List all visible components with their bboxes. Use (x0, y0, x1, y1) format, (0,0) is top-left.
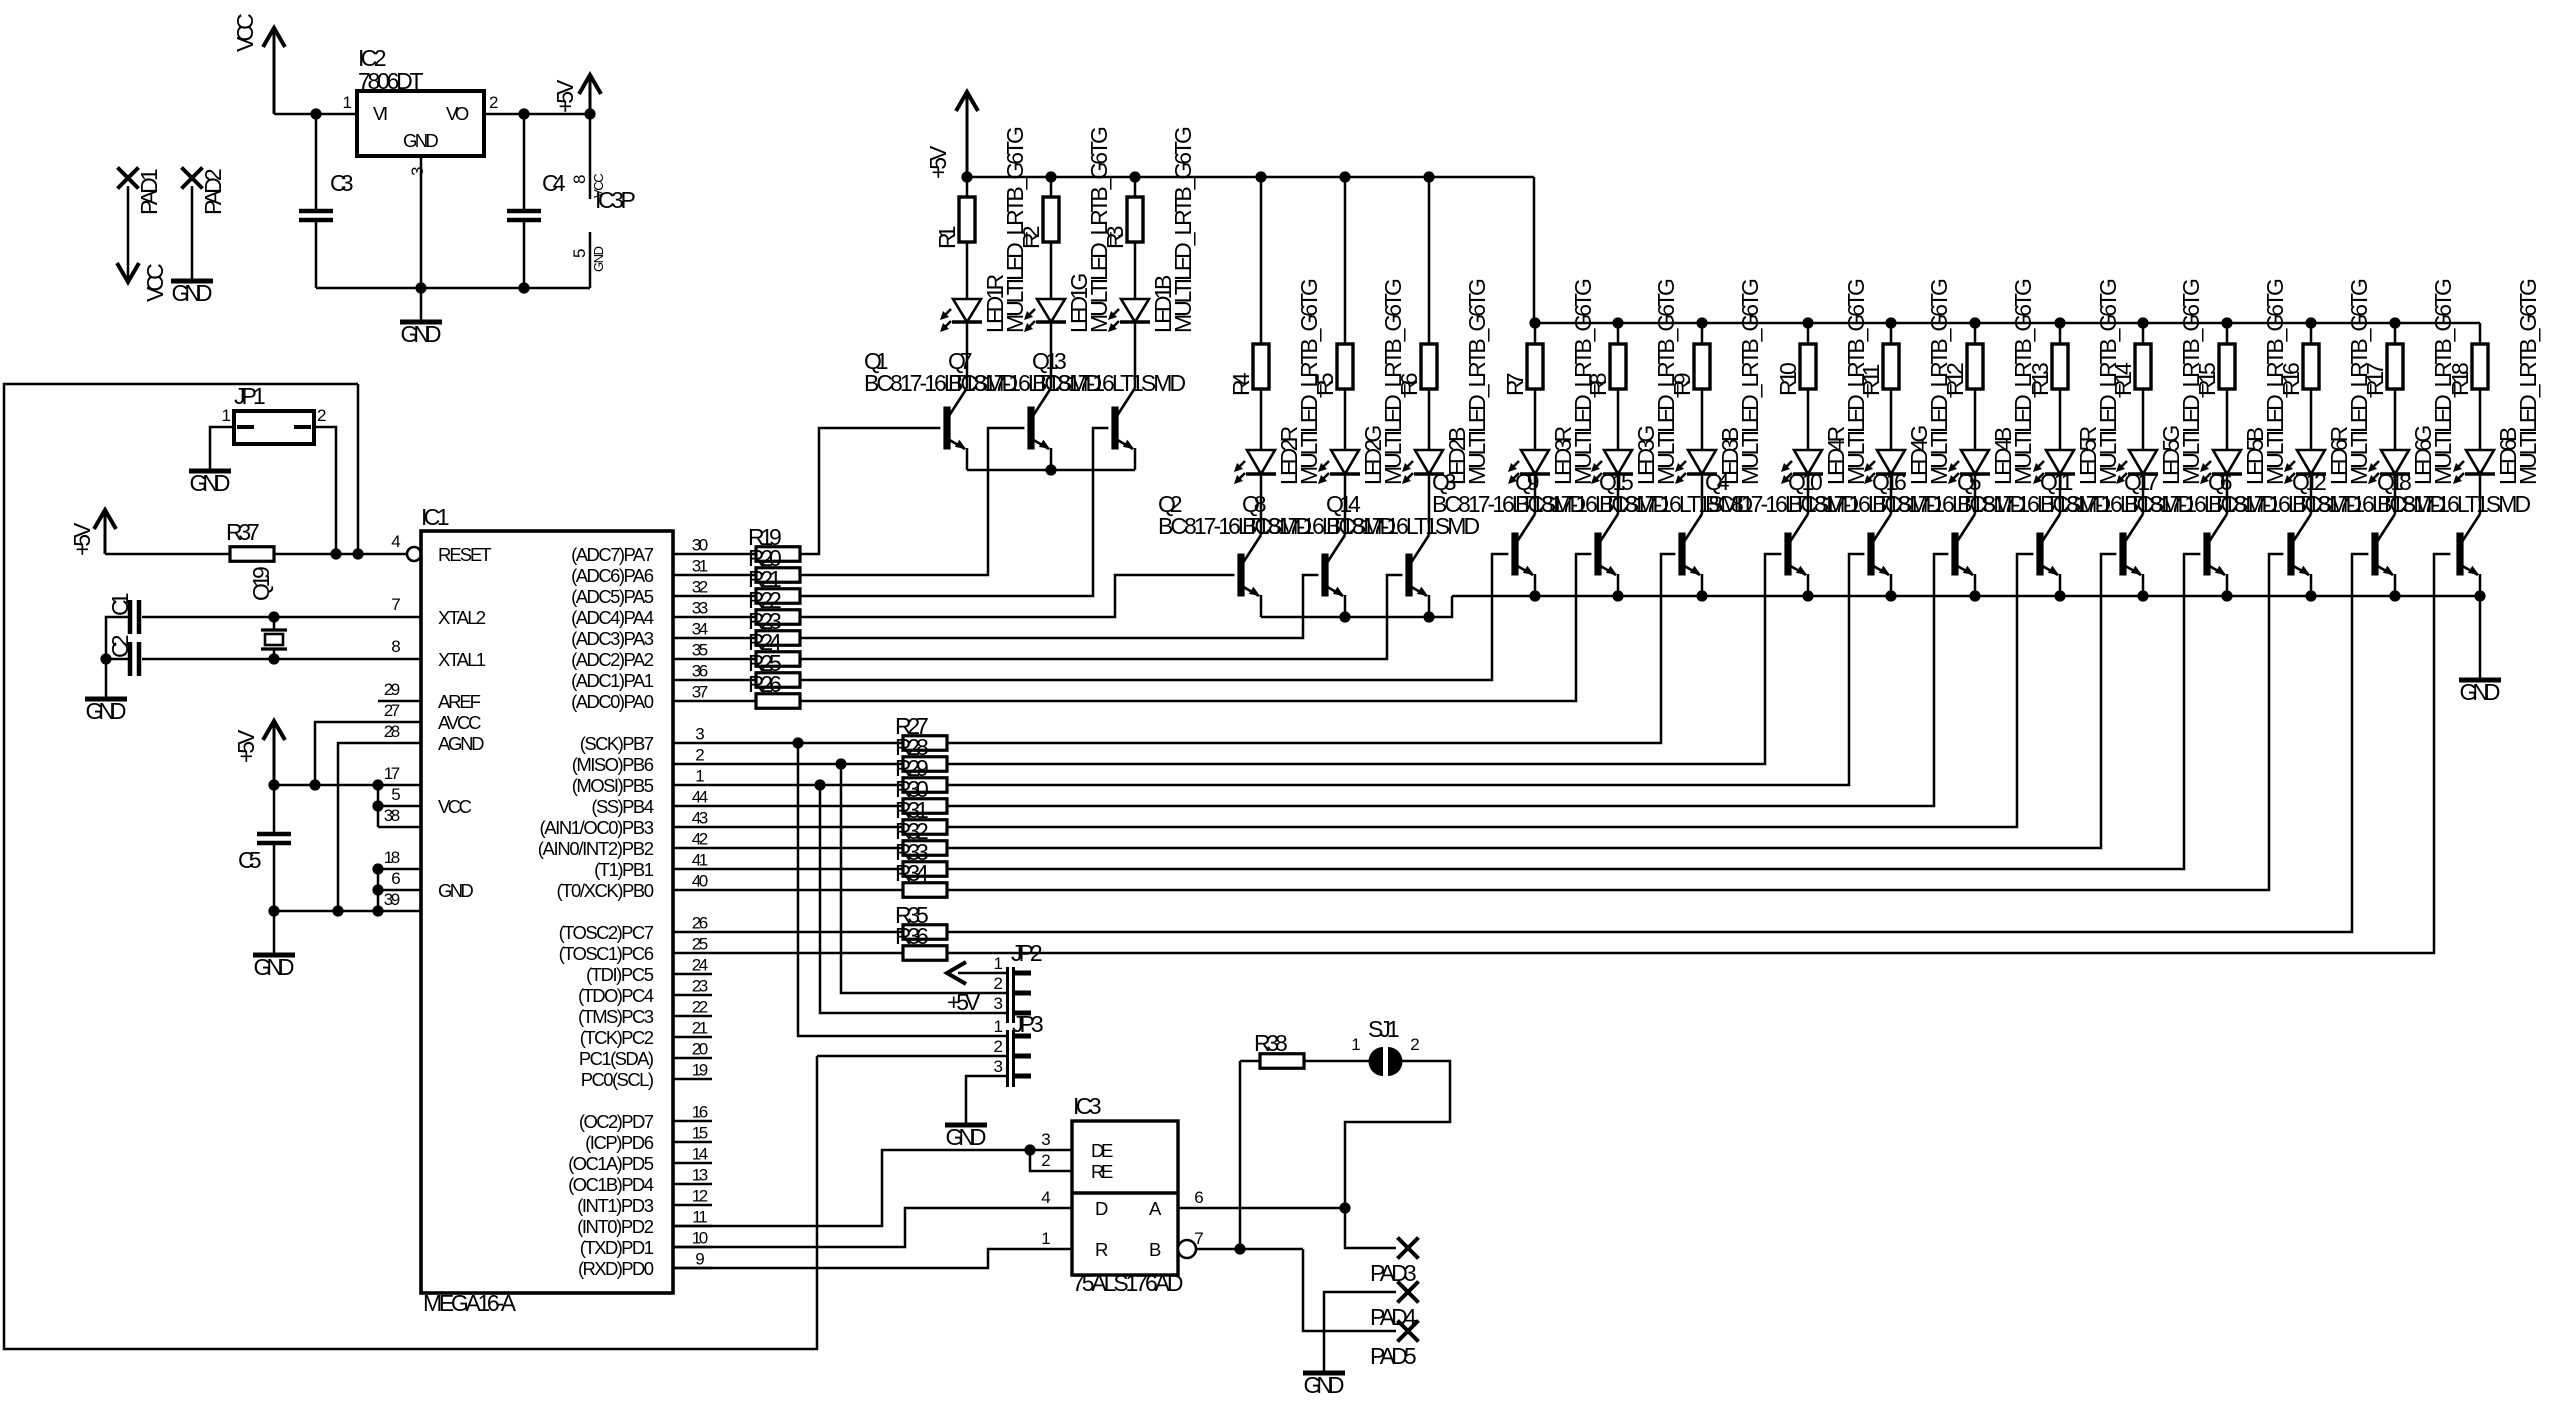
wire rail to R1 (966, 177, 969, 197)
svg-text:DE: DE (1091, 1140, 1113, 1161)
resistor R30 (712, 805, 903, 808)
svg-text:6: 6 (391, 869, 400, 888)
svg-text:BC817-16LT1SMD: BC817-16LT1SMD (2377, 491, 2531, 517)
svg-text:(T1)PB1: (T1)PB1 (594, 859, 654, 880)
LED LED2G (1331, 450, 1359, 474)
svg-text:(OC1A)PD5: (OC1A)PD5 (568, 1153, 654, 1174)
LED LED2R (1247, 450, 1275, 474)
ground GND (emitters) (2459, 678, 2501, 683)
wire R15 to LED5B (2226, 389, 2229, 450)
svg-text:R34: R34 (895, 860, 929, 886)
wire LED2R to Q2 collector (1260, 474, 1263, 535)
svg-text:1: 1 (994, 954, 1003, 973)
svg-text:(AIN0/INT2)PB2: (AIN0/INT2)PB2 (538, 838, 654, 859)
svg-text:R: R (1095, 1239, 1108, 1260)
wire pin18 stub (378, 868, 421, 871)
svg-text:C5: C5 (238, 847, 262, 873)
wire R18 to LED6B (2479, 389, 2482, 450)
wire +5V rail upper (967, 176, 1534, 179)
svg-text:C1: C1 (107, 593, 133, 617)
LED LED6R (2297, 450, 2325, 474)
resistor R17 (2387, 344, 2403, 389)
svg-text:27: 27 (384, 701, 400, 720)
wire frame loop (4, 384, 817, 1349)
crystal Q19 (268, 611, 279, 622)
LED LED5B (2213, 450, 2241, 474)
wire rail to R10 (1807, 323, 1810, 344)
wire C4 down (523, 220, 526, 288)
junction (2389, 590, 2400, 601)
junction (1339, 1202, 1350, 1213)
wire base route (947, 554, 2283, 890)
svg-text:28: 28 (384, 722, 400, 741)
wire C2 left (106, 658, 130, 661)
resistor R25 (712, 679, 756, 682)
wire base route (800, 575, 1318, 638)
svg-text:R38: R38 (1254, 1030, 1288, 1056)
svg-text:1: 1 (1041, 1229, 1050, 1248)
svg-text:R10: R10 (1775, 362, 1801, 396)
svg-text:(INT0)PD2: (INT0)PD2 (577, 1216, 654, 1237)
LED LED4R (1794, 450, 1822, 474)
svg-text:R17: R17 (2362, 362, 2388, 396)
svg-text:R5: R5 (1312, 373, 1338, 397)
wire base route (800, 575, 1234, 617)
wire LED4R to Q4 collector (1807, 474, 1810, 514)
wire gnd bus (377, 869, 380, 911)
resistor R22 (712, 616, 756, 619)
supply +5V (VCC) (263, 721, 285, 740)
junction (1802, 317, 1813, 328)
svg-text:3: 3 (408, 167, 427, 176)
capacitor C4 (507, 209, 541, 214)
wire rail to R4 (1260, 177, 1263, 344)
wire rail to R16 (2310, 323, 2313, 344)
resistor R12 (1967, 344, 1983, 389)
wire SJ1 to A node (1345, 1061, 1450, 1248)
resistor R7 (1527, 344, 1543, 389)
wire LED6B to Q18 collector (2479, 474, 2482, 514)
svg-text:AVCC: AVCC (438, 712, 482, 733)
svg-text:R16: R16 (2278, 362, 2304, 396)
resistor R26 (712, 700, 756, 703)
svg-text:44: 44 (692, 788, 708, 807)
svg-text:GND: GND (190, 470, 231, 496)
pin 3 wire (420, 156, 423, 288)
svg-text:GND: GND (403, 130, 439, 151)
resistor R28 (712, 763, 903, 766)
wire rail to R7 (1534, 323, 1537, 344)
wire R17 to LED6G (2394, 389, 2397, 450)
svg-text:R6: R6 (1396, 373, 1422, 397)
svg-text:3: 3 (695, 725, 704, 744)
svg-text:R9: R9 (1669, 373, 1695, 397)
svg-text:43: 43 (692, 809, 708, 828)
junction (2054, 317, 2065, 328)
svg-text:11: 11 (692, 1208, 707, 1227)
svg-text:5: 5 (570, 249, 589, 258)
svg-text:14: 14 (692, 1145, 708, 1164)
node dot pin3-gnd (415, 282, 426, 293)
wire rail to R18 (2479, 323, 2482, 344)
resistor R29 (712, 784, 903, 787)
junction (1612, 317, 1623, 328)
wire AREF stub (378, 700, 421, 703)
wire B to PAD5 (1303, 1249, 1396, 1331)
junction (2137, 590, 2148, 601)
wire base route (947, 554, 1675, 743)
svg-text:30: 30 (692, 536, 708, 555)
wire +5V to JP2 pin1 (958, 972, 1007, 975)
wire LED4B to Q16 collector (1974, 474, 1977, 514)
svg-text:AREF: AREF (438, 691, 481, 712)
junction (1969, 590, 1980, 601)
svg-text:R37: R37 (226, 519, 260, 545)
wire base route (800, 428, 1024, 575)
svg-text:R11: R11 (1858, 364, 1884, 396)
wire LED1B to Q13 collector (1134, 322, 1137, 388)
svg-text:PAD2: PAD2 (200, 168, 226, 215)
ground GND (JP1) (189, 469, 231, 474)
resistor R15 (2219, 344, 2235, 389)
resistor R33 (712, 868, 903, 871)
svg-text:2: 2 (695, 746, 704, 765)
svg-text:PC0(SCL): PC0(SCL) (581, 1069, 654, 1090)
wire B out (1196, 1248, 1303, 1251)
wire R4 to LED2R (1260, 389, 1263, 450)
svg-text:+5V: +5V (69, 522, 95, 556)
junction (1885, 590, 1896, 601)
resistor R27 (712, 742, 903, 745)
transistor Q6 BC817-16LT1SMD (2287, 533, 2294, 576)
wire rail to R3 (1134, 177, 1137, 197)
wire R38 down (1239, 1061, 1242, 1249)
svg-text:R36: R36 (895, 923, 929, 949)
wire +5V row to VCC pin (274, 784, 421, 787)
IC IC3 75ALS176AD (1072, 1121, 1178, 1275)
wire LED1R to Q1 collector (966, 322, 969, 388)
wire R6 to LED2B (1428, 389, 1431, 450)
svg-text:7806DT: 7806DT (358, 68, 424, 94)
wire PD2 to DE/RE (673, 1150, 1072, 1226)
svg-text:75ALS176AD: 75ALS176AD (1072, 1270, 1184, 1296)
transistor Q9 BC817-16LT1SMD (1594, 533, 1601, 576)
svg-text:5: 5 (391, 785, 400, 804)
svg-text:24: 24 (692, 956, 708, 975)
ground GND (PAD2) (171, 279, 213, 284)
wire PD1 to D (673, 1208, 1072, 1247)
svg-text:(ADC3)PA3: (ADC3)PA3 (571, 628, 654, 649)
node dot PB5 tap (814, 779, 825, 790)
junction (1045, 464, 1056, 475)
svg-text:34: 34 (692, 620, 708, 639)
svg-text:(ADC1)PA1: (ADC1)PA1 (571, 670, 654, 691)
ground GND (C5) (253, 953, 295, 958)
junction (1969, 317, 1980, 328)
svg-text:B: B (1149, 1239, 1161, 1260)
svg-text:(TOSC1)PC6: (TOSC1)PC6 (559, 943, 654, 964)
junction (1129, 171, 1140, 182)
svg-text:IC1: IC1 (421, 504, 450, 530)
junction (1024, 1144, 1035, 1155)
wire LED3R to Q3 collector (1534, 474, 1537, 514)
svg-text:AGND: AGND (438, 733, 485, 754)
svg-text:2: 2 (317, 406, 326, 425)
junction (2305, 590, 2316, 601)
svg-text:41: 41 (692, 851, 708, 870)
wire R11 to LED4G (1890, 389, 1893, 450)
LED LED1B (1121, 299, 1149, 322)
junction (1696, 590, 1707, 601)
svg-text:2: 2 (1410, 1035, 1419, 1054)
svg-text:GND: GND (401, 321, 442, 347)
svg-text:18: 18 (384, 848, 400, 867)
svg-text:6: 6 (1194, 1188, 1203, 1207)
svg-text:R13: R13 (2027, 362, 2053, 396)
transistor Q3 BC817-16LT1SMD (1511, 533, 1518, 576)
wire PB6 to JP2 pin2 (841, 764, 1007, 993)
capacitor C2 (128, 642, 133, 676)
svg-text:XTAL2: XTAL2 (438, 607, 486, 628)
svg-text:C4: C4 (542, 170, 566, 196)
wire base route (947, 554, 1864, 785)
svg-text:PAD3: PAD3 (1370, 1260, 1417, 1286)
svg-text:(SCK)PB7: (SCK)PB7 (580, 733, 654, 754)
svg-text:1: 1 (222, 406, 231, 425)
wire rail to R17 (2394, 323, 2397, 344)
wire rail to R2 (1050, 177, 1053, 197)
wire LED4G to Q10 collector (1890, 474, 1893, 514)
wire base route (800, 554, 1508, 680)
transistor Q10 BC817-16LT1SMD (1867, 533, 1874, 576)
svg-text:(ICP)PD6: (ICP)PD6 (585, 1132, 654, 1153)
node dot frame-reset (352, 548, 363, 559)
svg-text:+5V: +5V (925, 145, 951, 179)
resistor R6 (1421, 344, 1437, 389)
svg-text:(T0/XCK)PB0: (T0/XCK)PB0 (557, 880, 655, 901)
svg-text:R2: R2 (1018, 226, 1044, 250)
junction (2221, 317, 2232, 328)
pin 7 inverted bubble (1178, 1240, 1196, 1258)
transistor Q8 BC817-16LT1SMD (1321, 554, 1328, 597)
wire emitter rail main (1452, 595, 2480, 598)
svg-text:(SS)PB4: (SS)PB4 (591, 796, 654, 817)
svg-text:1: 1 (994, 1017, 1003, 1036)
wire PAD4 to gnd (1324, 1292, 1396, 1371)
LED LED3G (1604, 450, 1632, 474)
svg-text:(MISO)PB6: (MISO)PB6 (572, 754, 654, 775)
wire base route (947, 554, 2116, 848)
wire LED2G to Q8 collector (1344, 474, 1347, 535)
IC IC1 MEGA16-A (421, 531, 673, 1293)
svg-text:2: 2 (994, 1037, 1003, 1056)
svg-text:13: 13 (692, 1166, 708, 1185)
svg-text:(TOSC2)PC7: (TOSC2)PC7 (559, 922, 654, 943)
wire RE jog (1030, 1150, 1072, 1171)
wire R13 to LED5R (2059, 389, 2062, 450)
resistor R14 (2135, 344, 2151, 389)
junction (1696, 317, 1707, 328)
transistor Q2 BC817-16LT1SMD (1237, 554, 1244, 597)
RESET inverted pin circle (407, 547, 421, 561)
LED LED6B (2466, 450, 2494, 474)
transistor Q16 BC817-16LT1SMD (1951, 533, 1958, 576)
svg-text:GND: GND (2460, 679, 2501, 705)
svg-text:RE: RE (1091, 1161, 1113, 1182)
svg-text:(ADC2)PA2: (ADC2)PA2 (571, 649, 654, 670)
wire to ground (420, 288, 423, 320)
svg-text:(TCK)PC2: (TCK)PC2 (580, 1027, 654, 1048)
wire LED5B to Q17 collector (2226, 474, 2229, 514)
svg-text:38: 38 (384, 806, 400, 825)
svg-text:3: 3 (1041, 1130, 1050, 1149)
junction (1045, 171, 1056, 182)
svg-text:R8: R8 (1585, 373, 1611, 397)
wire LED1G to Q7 collector (1050, 322, 1053, 388)
svg-text:JP3: JP3 (1012, 1011, 1044, 1037)
LED LED6G (2381, 450, 2409, 474)
junction (2389, 317, 2400, 328)
junction (2305, 317, 2316, 328)
transistor Q11 BC817-16LT1SMD (2119, 533, 2126, 576)
svg-text:JP2: JP2 (1011, 940, 1043, 966)
wire R9 to LED3B (1701, 389, 1704, 450)
LED LED2B (1415, 450, 1443, 474)
svg-text:PAD4: PAD4 (1370, 1304, 1417, 1330)
resistor R31 (712, 826, 903, 829)
svg-text:(AIN1/OC0)PB3: (AIN1/OC0)PB3 (540, 817, 655, 838)
wire R12 to LED4B (1974, 389, 1977, 450)
resistor R21 (712, 595, 756, 598)
svg-text:8: 8 (391, 637, 400, 656)
node dot +5V-IC3P (584, 108, 595, 119)
svg-text:12: 12 (692, 1187, 708, 1206)
svg-text:22: 22 (692, 998, 708, 1017)
svg-text:(TDI)PC5: (TDI)PC5 (586, 964, 654, 985)
svg-text:3: 3 (994, 994, 1003, 1013)
wire base route (947, 554, 2368, 932)
svg-text:2: 2 (994, 974, 1003, 993)
svg-text:(ADC7)PA7: (ADC7)PA7 (571, 544, 654, 565)
svg-text:19: 19 (692, 1061, 708, 1080)
wire R38 to SJ1 (1304, 1060, 1371, 1063)
transistor Q13 BC817-16LT1SMD (1111, 407, 1118, 450)
wire emitter rail group2 (1261, 596, 1452, 617)
wire gnd row (274, 910, 421, 913)
wire R10 to LED4R (1807, 389, 1810, 450)
ground GND (PAD4) (1303, 1371, 1345, 1376)
resistor R13 (2052, 344, 2068, 389)
transistor Q15 BC817-16LT1SMD (1678, 533, 1685, 576)
svg-text:R15: R15 (2194, 362, 2220, 396)
svg-text:C2: C2 (107, 635, 133, 659)
LED LED3R (1521, 450, 1549, 474)
junction (1423, 171, 1434, 182)
resistor R35 (712, 931, 903, 934)
LED LED4G (1877, 450, 1905, 474)
LED LED5G (2129, 450, 2157, 474)
node dot VCC-C3 (310, 108, 321, 119)
wire LED3B to Q15 collector (1701, 474, 1704, 514)
svg-text:37: 37 (692, 683, 708, 702)
wire R3 to LED1B (1134, 242, 1137, 299)
svg-text:R26: R26 (748, 671, 782, 697)
wire pin5 stub (378, 805, 421, 808)
wire +5V rail lower (1534, 322, 2480, 325)
svg-text:23: 23 (692, 977, 708, 996)
svg-text:26: 26 (692, 914, 708, 933)
wire JP1 pin2 (314, 427, 336, 554)
wire A out (1178, 1207, 1345, 1210)
svg-text:(OC2)PD7: (OC2)PD7 (579, 1111, 654, 1132)
resistor R11 (1883, 344, 1899, 389)
wire rail to R11 (1890, 323, 1893, 344)
junction (2054, 590, 2065, 601)
svg-text:C3: C3 (330, 170, 354, 196)
wire JP1 pin1 to gnd (210, 427, 234, 469)
wire vcc bus (377, 785, 380, 827)
svg-text:(TMS)PC3: (TMS)PC3 (578, 1006, 654, 1027)
svg-text:A: A (1149, 1198, 1162, 1219)
svg-text:17: 17 (384, 764, 400, 783)
svg-text:MULTILED_LRTB_G6TG: MULTILED_LRTB_G6TG (1737, 278, 1763, 485)
wire base route (947, 554, 2033, 827)
wire pin6 stub (378, 889, 421, 892)
resistor R9 (1694, 344, 1710, 389)
node dot PB7 tap (792, 737, 803, 748)
supply +5V (LED rail) (956, 92, 978, 111)
svg-text:D: D (1095, 1198, 1108, 1219)
svg-text:GND: GND (1304, 1372, 1345, 1398)
wire R7 to LED3R (1534, 389, 1537, 450)
resistor R32 (712, 847, 903, 850)
LED LED1G (1037, 299, 1065, 322)
svg-text:39: 39 (384, 890, 400, 909)
jumper JP1 (234, 411, 314, 444)
capacitor C1 (128, 600, 133, 634)
svg-text:R7: R7 (1502, 373, 1528, 397)
wire base route (800, 575, 1402, 659)
junction (1529, 590, 1540, 601)
svg-text:35: 35 (692, 641, 708, 660)
node dot PB6 tap (835, 758, 846, 769)
transistor Q1 BC817-16LT1SMD (943, 407, 950, 450)
svg-text:33: 33 (692, 599, 708, 618)
pad PAD1 (118, 168, 139, 189)
junction (1234, 1243, 1245, 1254)
ground GND (regulator) (400, 320, 442, 325)
svg-text:R18: R18 (2447, 362, 2473, 396)
wire C3 down (315, 220, 318, 288)
transistor Q7 BC817-16LT1SMD (1027, 407, 1034, 450)
svg-text:R12: R12 (1942, 362, 1968, 396)
wire C4 up (523, 114, 526, 211)
svg-text:3: 3 (994, 1057, 1003, 1076)
wire AGND (338, 743, 421, 911)
svg-text:2: 2 (1041, 1151, 1050, 1170)
svg-text:32: 32 (692, 578, 708, 597)
supply +5V (JP2 pin1) (947, 962, 966, 984)
svg-text:GND: GND (172, 280, 213, 306)
pad PAD2 (182, 168, 203, 189)
svg-text:(TXD)PD1: (TXD)PD1 (580, 1237, 654, 1258)
supply +5V (regulator output) (579, 75, 601, 94)
transistor Q17 BC817-16LT1SMD (2203, 533, 2210, 576)
LED LED3B (1688, 450, 1716, 474)
svg-text:(ADC5)PA5: (ADC5)PA5 (571, 586, 654, 607)
pad PAD5 (1398, 1321, 1419, 1342)
node dot C2-gnd (100, 653, 111, 664)
